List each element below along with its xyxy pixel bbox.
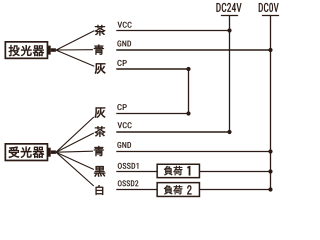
- load label digit 1: [188, 166, 191, 175]
- wire receiver to 茶 (brown): [56, 133, 94, 152]
- wire GND (transmitter) to DC0V rail: [116, 49, 270, 51]
- transmitter label 投光器: [9, 45, 44, 56]
- transmitter box (投光器): [5, 42, 47, 59]
- wire VCC (receiver) to DC24V rail: [116, 131, 229, 133]
- label GND (transmitter): [117, 41, 131, 47]
- junction VCC receiver/DC24V rail end: [227, 130, 231, 134]
- load label digit 2: [187, 185, 191, 194]
- wire transmitter to 灰 (gray): [56, 50, 94, 66]
- label DC0V: [259, 3, 279, 12]
- label CP (receiver): [117, 104, 126, 110]
- wire OSSD2 to load 2: [116, 189, 156, 191]
- wire CP (transmitter): [116, 68, 188, 70]
- label GND (receiver): [117, 142, 131, 148]
- junction CP transmitter end: [186, 67, 190, 71]
- label 黒 black wire (receiver): [94, 166, 105, 177]
- load box 負荷1: [157, 164, 199, 177]
- label 青 blue wire (transmitter): [94, 45, 104, 55]
- label 茶 brown wire (transmitter): [95, 25, 106, 36]
- load label 負荷 (load 2): [164, 185, 182, 194]
- label DC24V: [216, 3, 241, 12]
- junction OSSD2/DC0V rail end: [268, 187, 272, 191]
- receiver box (受光器): [5, 144, 47, 161]
- junction GND receiver/DC0V: [268, 149, 272, 153]
- load box 負荷2: [157, 183, 199, 197]
- load label 負荷 (load 1): [164, 166, 182, 175]
- DC0V terminal bar: [262, 15, 279, 17]
- wire receiver to 灰 (gray): [56, 117, 94, 152]
- wire receiver to 黒 (black): [56, 152, 94, 169]
- DC24V rail: [229, 16, 231, 133]
- label 茶 brown wire (receiver): [95, 126, 106, 137]
- wire receiver to 白 (white): [56, 152, 94, 186]
- label 灰 gray wire (receiver): [95, 108, 106, 118]
- wire CP link vertical: [188, 69, 190, 114]
- label OSSD2: [118, 180, 139, 186]
- wire transmitter to 青 (blue): [56, 49, 93, 51]
- label CP (transmitter): [117, 60, 126, 66]
- wire OSSD1 to load 1: [116, 171, 156, 173]
- wire transmitter to 茶 (brown): [56, 31, 94, 50]
- label 白 white wire (receiver): [96, 185, 103, 195]
- wire VCC (transmitter) to DC24V rail: [116, 30, 229, 32]
- wire GND (receiver) to DC0V rail: [116, 151, 270, 153]
- label 青 blue wire (receiver): [94, 146, 104, 156]
- junction CP receiver end: [186, 111, 190, 115]
- wire load 1 to DC0V rail: [200, 171, 271, 173]
- label VCC (transmitter): [118, 22, 132, 28]
- label 灰 gray wire (transmitter): [95, 63, 106, 73]
- DC0V rail: [270, 16, 272, 190]
- wire CP (receiver): [116, 113, 188, 115]
- label OSSD1: [118, 163, 139, 169]
- junction GND/DC0V: [268, 48, 272, 52]
- receiver label 受光器: [9, 147, 44, 158]
- label VCC (receiver): [118, 122, 132, 128]
- junction VCC/DC24V: [227, 28, 231, 32]
- transmitter connector plug: [48, 46, 51, 55]
- junction OSSD1/DC0V: [268, 169, 272, 173]
- wire receiver to 青 (blue): [56, 151, 93, 152]
- wire load 2 to DC0V rail: [200, 189, 271, 191]
- receiver connector plug: [48, 148, 51, 157]
- DC24V terminal bar: [221, 15, 238, 17]
